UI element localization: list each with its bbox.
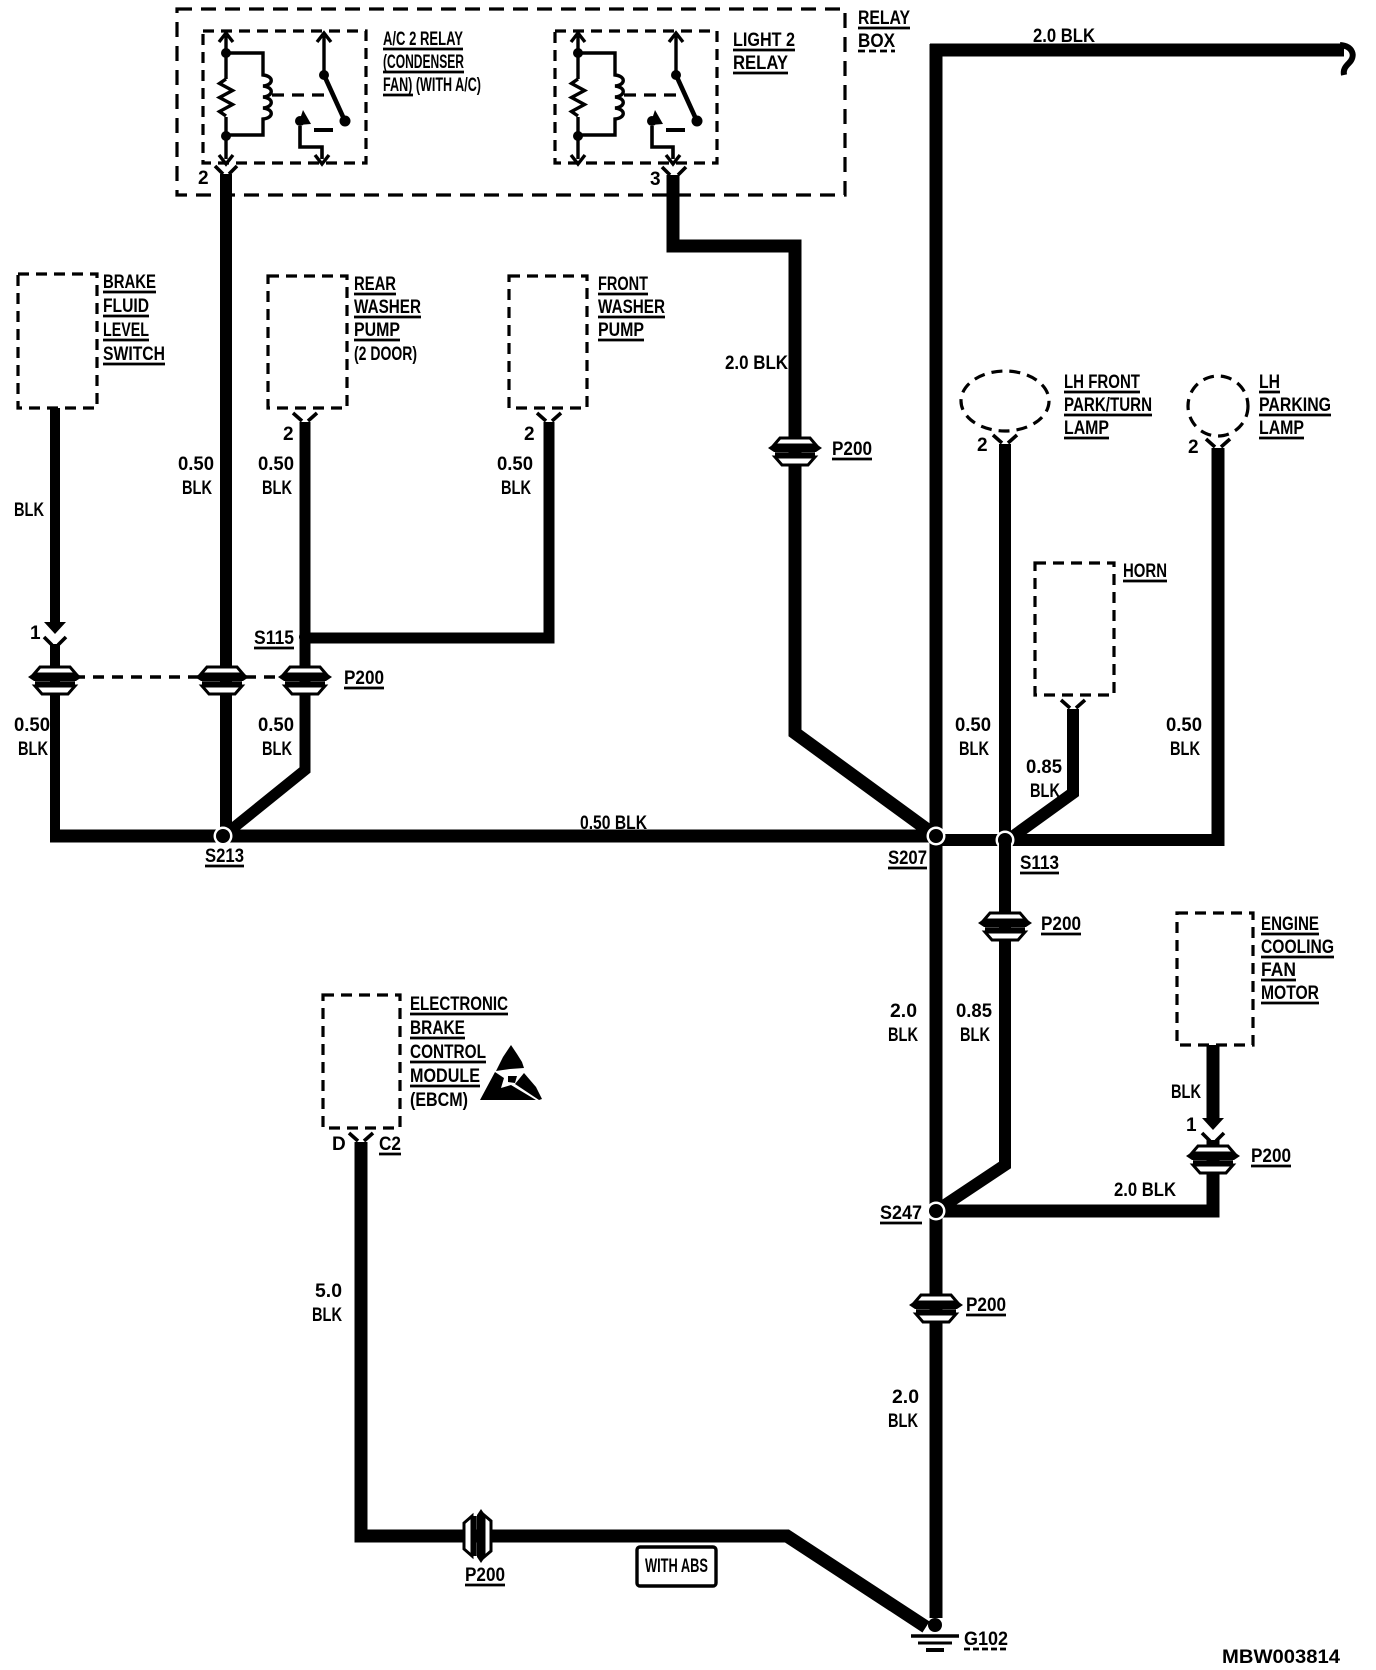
svg-text:P200: P200 xyxy=(1251,1146,1291,1167)
svg-text:(CONDENSER: (CONDENSER xyxy=(383,52,464,73)
svg-text:P200: P200 xyxy=(966,1295,1006,1316)
wire size labels column upper xyxy=(178,454,533,499)
svg-text:REAR: REAR xyxy=(354,274,396,295)
svg-text:MBW003814: MBW003814 xyxy=(1222,1647,1340,1668)
svg-text:P200: P200 xyxy=(832,439,872,460)
svg-text:ENGINE: ENGINE xyxy=(1261,914,1319,935)
svg-text:2.0 BLK: 2.0 BLK xyxy=(1033,26,1095,47)
svg-text:BRAKE: BRAKE xyxy=(103,272,156,293)
svg-text:P200: P200 xyxy=(465,1565,505,1586)
wire size labels column lower xyxy=(14,715,294,760)
inline connector pin 1 on fan wire xyxy=(1186,1115,1224,1141)
wire relay pin3 to S207 xyxy=(673,175,936,836)
svg-text:WITH ABS: WITH ABS xyxy=(645,1556,708,1577)
junction S213 xyxy=(205,827,244,868)
svg-text:0.50: 0.50 xyxy=(955,715,991,736)
wire brake switch to S213 bus xyxy=(50,408,60,626)
pin 2 rear washer pump xyxy=(283,413,317,445)
svg-text:LIGHT 2: LIGHT 2 xyxy=(733,30,795,51)
svg-text:0.50: 0.50 xyxy=(14,715,50,736)
svg-text:S113: S113 xyxy=(1020,853,1059,874)
grommet P200 on relay wire xyxy=(768,438,872,465)
wire front washer pump to S115 xyxy=(305,422,549,638)
svg-text:BLK: BLK xyxy=(888,1025,918,1046)
relay box enclosure xyxy=(177,8,910,195)
svg-text:2: 2 xyxy=(198,168,209,189)
svg-text:S207: S207 xyxy=(888,848,927,869)
brake fluid level switch box xyxy=(18,272,165,408)
wire parking lamp to bus xyxy=(1212,448,1225,846)
svg-text:0.50: 0.50 xyxy=(178,454,214,475)
svg-text:BLK: BLK xyxy=(262,739,292,760)
pin 2 LH parking lamp xyxy=(1188,437,1230,458)
svg-text:2: 2 xyxy=(977,435,988,456)
svg-text:LAMP: LAMP xyxy=(1064,418,1109,439)
trunk label lower 2.0 BLK xyxy=(888,1387,919,1432)
relay U2 coil resistor branch xyxy=(571,33,623,164)
relay U1 switch branch xyxy=(295,33,351,164)
svg-text:PUMP: PUMP xyxy=(354,320,400,341)
pin 2 LH front park/turn lamp xyxy=(977,435,1017,456)
svg-text:BLK: BLK xyxy=(959,739,989,760)
wire EBCM to ground run xyxy=(361,1142,926,1627)
wire fan motor upper xyxy=(1207,1045,1220,1122)
svg-text:BLK: BLK xyxy=(14,500,44,521)
relay U1 mechanical link xyxy=(272,93,330,96)
junction S113 xyxy=(996,831,1060,875)
svg-text:SWITCH: SWITCH xyxy=(103,344,165,365)
svg-text:A/C 2 RELAY: A/C 2 RELAY xyxy=(383,29,463,50)
svg-text:2: 2 xyxy=(524,424,535,445)
svg-text:(2 DOOR): (2 DOOR) xyxy=(354,344,417,365)
svg-text:2.0 BLK: 2.0 BLK xyxy=(1114,1180,1176,1201)
grommet P200 below S247 xyxy=(909,1295,1006,1322)
svg-text:BLK: BLK xyxy=(1030,781,1060,802)
grommet P200 right on rear washer wire xyxy=(278,667,384,694)
svg-text:LH: LH xyxy=(1259,372,1280,393)
svg-text:BLK: BLK xyxy=(960,1025,990,1046)
wire relay pin2 to S213 xyxy=(220,174,232,840)
svg-text:0.85: 0.85 xyxy=(956,1001,992,1022)
junction S115 xyxy=(254,628,311,649)
svg-text:2.0: 2.0 xyxy=(890,1001,917,1022)
svg-text:BLK: BLK xyxy=(501,478,531,499)
grommet P200 middle on relay pin2 wire xyxy=(195,667,249,694)
svg-text:LAMP: LAMP xyxy=(1259,418,1304,439)
svg-text:CONTROL: CONTROL xyxy=(410,1042,486,1063)
ESD sensitive device icon xyxy=(480,1045,542,1100)
relay U1 A/C 2 relay (condenser fan) xyxy=(203,29,481,163)
wire horn to S113 xyxy=(1008,709,1073,840)
svg-text:LEVEL: LEVEL xyxy=(103,320,149,341)
svg-text:PARKING: PARKING xyxy=(1259,395,1331,416)
junction S247 xyxy=(880,1202,946,1225)
svg-text:ELECTRONIC: ELECTRONIC xyxy=(410,994,508,1015)
rear washer pump box xyxy=(268,274,421,408)
svg-text:RELAY: RELAY xyxy=(858,8,910,29)
label 5.0 BLK xyxy=(312,1281,342,1326)
svg-text:BLK: BLK xyxy=(888,1411,918,1432)
relay U1 coil resistor branch xyxy=(219,33,271,164)
trunk wire labels above S247 xyxy=(888,1001,992,1046)
svg-text:FAN: FAN xyxy=(1261,960,1296,981)
relay U2 switch branch xyxy=(647,33,703,164)
svg-text:2: 2 xyxy=(1188,437,1199,458)
grommet P200 left on brake wire xyxy=(28,667,82,694)
svg-text:0.85: 0.85 xyxy=(1026,757,1062,778)
svg-text:BLK: BLK xyxy=(18,739,48,760)
wire size labels right of bus xyxy=(955,715,1202,802)
svg-text:0.50: 0.50 xyxy=(258,454,294,475)
relay U2 LIGHT 2 relay xyxy=(555,30,795,163)
svg-text:PARK/TURN: PARK/TURN xyxy=(1064,395,1152,416)
svg-text:S213: S213 xyxy=(205,846,244,867)
svg-text:5.0: 5.0 xyxy=(315,1281,342,1302)
svg-text:S115: S115 xyxy=(254,628,294,649)
svg-text:G102: G102 xyxy=(964,1629,1008,1650)
svg-text:C2: C2 xyxy=(379,1134,401,1155)
pin 2 front washer pump xyxy=(524,413,561,445)
svg-text:BLK: BLK xyxy=(312,1305,342,1326)
svg-text:0.50: 0.50 xyxy=(497,454,533,475)
WITH ABS tag xyxy=(637,1547,716,1586)
horn pin connector xyxy=(1061,700,1085,708)
svg-text:0.50: 0.50 xyxy=(1166,715,1202,736)
grommet P200 on EBCM ground wire xyxy=(464,1509,505,1586)
svg-text:(EBCM): (EBCM) xyxy=(410,1090,468,1111)
inline connector pin 1 on brake wire xyxy=(30,622,66,645)
svg-text:FLUID: FLUID xyxy=(103,296,149,317)
svg-text:P200: P200 xyxy=(1041,914,1081,935)
front washer pump box xyxy=(509,274,665,408)
relay U2 mechanical link xyxy=(624,93,682,96)
svg-text:WASHER: WASHER xyxy=(354,297,421,318)
svg-text:BLK: BLK xyxy=(1171,1082,1201,1103)
svg-text:BOX: BOX xyxy=(858,31,895,52)
svg-text:D: D xyxy=(332,1134,346,1155)
svg-text:0.50: 0.50 xyxy=(258,715,294,736)
svg-text:PUMP: PUMP xyxy=(598,320,644,341)
svg-text:FRONT: FRONT xyxy=(598,274,648,295)
svg-text:2.0: 2.0 xyxy=(892,1387,919,1408)
svg-text:P200: P200 xyxy=(344,668,384,689)
main trunk wire xyxy=(930,44,943,1618)
svg-text:0.50 BLK: 0.50 BLK xyxy=(580,813,647,834)
svg-text:HORN: HORN xyxy=(1123,561,1167,582)
svg-text:MOTOR: MOTOR xyxy=(1261,983,1319,1004)
wire park/turn lamp to S113 xyxy=(999,444,1011,842)
pin D connector C2 of EBCM xyxy=(332,1133,401,1155)
svg-text:FAN) (WITH A/C): FAN) (WITH A/C) xyxy=(383,75,481,96)
svg-text:MODULE: MODULE xyxy=(410,1066,480,1087)
svg-text:S247: S247 xyxy=(880,1203,922,1224)
svg-text:1: 1 xyxy=(30,623,41,644)
svg-text:2: 2 xyxy=(283,424,294,445)
LH parking lamp xyxy=(1188,372,1331,439)
grommet P200 below S113 xyxy=(978,913,1081,940)
pin 3 of relay box xyxy=(650,167,686,190)
LH front park/turn lamp xyxy=(961,371,1152,439)
svg-text:2.0 BLK: 2.0 BLK xyxy=(725,353,788,374)
ground bus wire S213 to S207 xyxy=(50,830,940,843)
engine cooling fan motor box xyxy=(1177,913,1334,1045)
svg-text:BLK: BLK xyxy=(262,478,292,499)
dashed link across P200 grommets xyxy=(55,675,305,678)
svg-text:BLK: BLK xyxy=(1170,739,1200,760)
svg-text:RELAY: RELAY xyxy=(733,53,788,74)
svg-text:BLK: BLK xyxy=(182,478,212,499)
pin 2 of relay box xyxy=(198,166,237,189)
top right 2.0 BLK wire xyxy=(930,26,1353,75)
wire S113 down to S247 xyxy=(939,841,1005,1209)
svg-text:3: 3 xyxy=(650,169,661,190)
grommet P200 on fan wire xyxy=(1186,1140,1291,1213)
wire fan branch to S247 xyxy=(936,1205,1220,1218)
junction S207 xyxy=(888,827,946,870)
horn box xyxy=(1035,561,1167,695)
svg-text:1: 1 xyxy=(1186,1115,1197,1136)
ground G102 xyxy=(911,1618,1008,1650)
wire rear washer pump to S213 xyxy=(227,422,305,833)
svg-text:WASHER: WASHER xyxy=(598,297,665,318)
svg-text:LH FRONT: LH FRONT xyxy=(1064,372,1140,393)
svg-text:BRAKE: BRAKE xyxy=(410,1018,465,1039)
svg-text:COOLING: COOLING xyxy=(1261,937,1334,958)
electronic brake control module box xyxy=(323,994,508,1128)
